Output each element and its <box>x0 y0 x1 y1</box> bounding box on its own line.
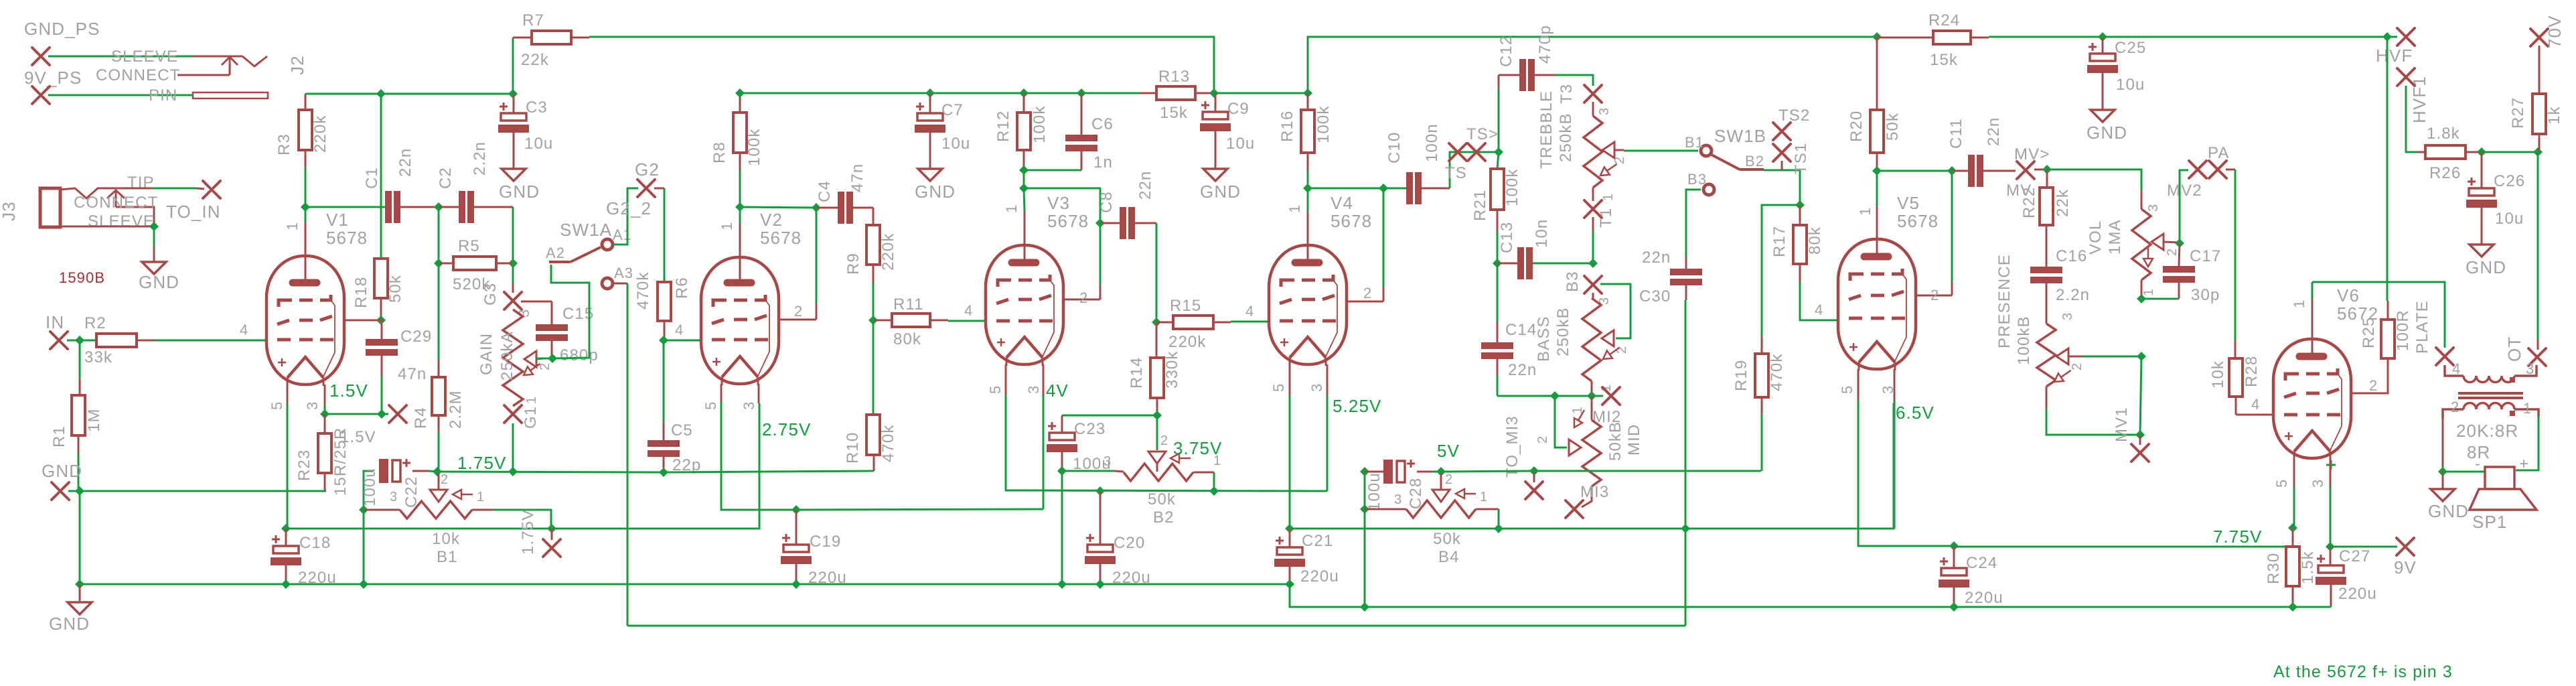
lead treble wiper <box>1614 149 1624 151</box>
lead C16 bottom <box>2046 281 2048 324</box>
wire V3 pin3 <box>1043 395 1045 509</box>
svg-text:MV2: MV2 <box>2167 182 2202 200</box>
junction B1 wiper <box>433 467 442 476</box>
svg-text:C18: C18 <box>299 534 331 552</box>
lead R3 bottom <box>305 150 307 167</box>
potentiometer B2 50k <box>1124 464 1193 481</box>
lead C11 right <box>1983 170 2016 172</box>
resistor R2 <box>96 334 137 347</box>
junction C24 top <box>1949 541 1959 551</box>
svg-text:3: 3 <box>741 401 757 410</box>
svg-text:R20: R20 <box>1847 111 1866 142</box>
svg-text:+: + <box>2519 455 2529 473</box>
lead R4 bottom <box>438 415 440 432</box>
wire sec left <box>2442 466 2444 472</box>
svg-text:TO_IN: TO_IN <box>166 202 221 222</box>
svg-text:250kA: 250kA <box>498 331 516 381</box>
svg-text:1: 1 <box>1601 193 1616 201</box>
lead C19 top <box>795 510 798 545</box>
svg-text:R8: R8 <box>710 141 729 163</box>
svg-text:R30: R30 <box>2265 553 2283 584</box>
svg-text:R6: R6 <box>673 277 691 299</box>
lead B1 left <box>364 509 400 511</box>
wiper treble <box>1602 142 1614 158</box>
capacitor C19 <box>781 534 812 564</box>
svg-text:2: 2 <box>794 303 803 320</box>
svg-text:47n: 47n <box>398 365 427 383</box>
lead R13 left <box>1140 92 1156 94</box>
lead R25 top <box>2387 301 2389 320</box>
svg-text:TS2: TS2 <box>1778 107 1810 125</box>
net flag G2 <box>637 180 655 197</box>
resistor R15 <box>1173 316 1213 329</box>
junction R30 gnd <box>2288 602 2297 612</box>
resistor R11 <box>892 314 930 327</box>
junction MV1 node <box>2135 430 2145 439</box>
svg-text:1: 1 <box>1286 204 1303 213</box>
lead C10 right <box>1421 188 1450 190</box>
svg-text:1n: 1n <box>1093 153 1113 171</box>
svg-text:G2_2: G2_2 <box>606 198 652 218</box>
svg-text:1: 1 <box>2141 288 2156 296</box>
lead C28 right <box>1417 471 1433 473</box>
net flag IN <box>50 332 68 349</box>
lead treble top <box>1592 102 1594 116</box>
junction B4 riser <box>1494 524 1503 533</box>
svg-text:T3: T3 <box>1558 84 1576 104</box>
wire rail3 switch A3 line <box>627 625 1685 627</box>
lead R21 bottom <box>1497 210 1499 231</box>
svg-text:G1: G1 <box>522 406 540 429</box>
wire V2 riser <box>816 208 818 303</box>
svg-text:4: 4 <box>675 322 684 338</box>
resistor R16 <box>1301 110 1314 153</box>
wire plate node V3 <box>1023 170 1025 188</box>
wire B2 wiper <box>1156 415 1158 450</box>
pin V1 plate lead <box>305 221 307 256</box>
pin V2 grid2 h <box>779 319 816 321</box>
pin V5 plate lead <box>1876 206 1878 239</box>
svg-text:1: 1 <box>718 222 735 230</box>
lead mid bottom <box>1582 486 1592 507</box>
wiper bass <box>1602 330 1614 346</box>
wire ground rail <box>80 584 1290 586</box>
lead C17 bottom <box>2178 281 2180 299</box>
wire plate to C4 <box>740 207 816 208</box>
svg-text:C12: C12 <box>1497 36 1515 67</box>
lead C29 top <box>381 320 383 339</box>
wire B+ rail B <box>740 92 1156 94</box>
svg-text:220u: 220u <box>1112 569 1151 587</box>
svg-text:G3: G3 <box>481 283 500 305</box>
junction C21 gnd <box>1285 579 1294 589</box>
wiper B1 <box>430 490 447 502</box>
wire C12 to T3 <box>1556 75 1593 86</box>
ground C9 <box>1203 169 1227 181</box>
svg-text:220u: 220u <box>1300 567 1339 586</box>
lead G3 top <box>512 284 514 293</box>
net flag 9V <box>2397 538 2414 555</box>
svg-text:C11: C11 <box>1947 118 1965 149</box>
junction R15 left <box>1152 318 1161 327</box>
lead R28 top <box>2234 340 2237 358</box>
wire R19 bottom <box>1761 414 1763 471</box>
wire C29 bottom <box>381 375 383 414</box>
pin V4 grid2 <box>1383 287 1385 301</box>
wire B+ rail A <box>305 93 513 95</box>
wire TO_IN red stub <box>196 188 204 189</box>
junction rail right C30 <box>1681 524 1690 533</box>
svg-text:A3: A3 <box>614 265 633 281</box>
lead R11 right <box>930 320 948 322</box>
svg-text:R18: R18 <box>352 277 370 308</box>
lead R28 bottom <box>2235 397 2237 415</box>
svg-text:220u: 220u <box>2338 585 2377 603</box>
lead C11 left <box>1952 170 1968 172</box>
pin V2 leg3 <box>758 384 760 403</box>
wire V5 riser <box>1951 171 1953 282</box>
svg-text:GND: GND <box>1200 182 1241 202</box>
wire C28 drop <box>1364 472 1366 607</box>
wire gnd node to R23 <box>68 490 326 492</box>
capacitor C5 <box>648 440 680 457</box>
arrow vol <box>2143 247 2153 267</box>
lead GAIN wiper <box>536 358 544 359</box>
net flag MI2 <box>1602 387 1620 405</box>
wire to HVF flag <box>2387 36 2397 38</box>
ground J3 <box>142 262 166 274</box>
wire C30 riser <box>1685 300 1687 626</box>
arrow B4 <box>1456 489 1476 498</box>
net flag MI3 <box>1566 500 1583 518</box>
svg-text:V5: V5 <box>1897 193 1920 213</box>
lead R2 right <box>137 340 155 342</box>
svg-text:1MA: 1MA <box>2106 219 2124 255</box>
switch SW1A arm <box>549 247 601 262</box>
pin V1 grid2 wire <box>344 320 381 322</box>
wire C25 to HVF <box>2103 36 2387 38</box>
svg-text:5678: 5678 <box>1331 211 1372 231</box>
lead C14 bottom <box>1497 357 1499 375</box>
svg-text:2: 2 <box>2165 248 2180 256</box>
wire rail B up <box>1214 37 1877 93</box>
lead C5 bottom <box>663 455 665 472</box>
svg-text:TS: TS <box>1445 164 1467 182</box>
net flag GND in <box>52 482 69 500</box>
svg-text:10u: 10u <box>2116 76 2145 94</box>
svg-text:1: 1 <box>2291 299 2307 308</box>
wire B3 pin to C30 <box>1686 190 1701 257</box>
svg-text:R26: R26 <box>2429 164 2461 182</box>
tube V4 5678 <box>1269 245 1347 366</box>
lead R17 top2 <box>1799 205 1801 225</box>
svg-text:5.25V: 5.25V <box>1333 396 1381 416</box>
wire R6 top <box>664 188 666 282</box>
wire A3 down <box>627 283 629 626</box>
svg-text:1: 1 <box>1857 207 1874 216</box>
wire A1 up <box>613 188 638 245</box>
svg-text:R16: R16 <box>1278 111 1296 142</box>
potentiometer MID 50kB <box>1582 420 1601 486</box>
svg-text:1.75V: 1.75V <box>457 453 506 473</box>
lead R20 bottom <box>1876 153 1878 171</box>
svg-text:50k: 50k <box>386 275 404 303</box>
lead R27 top <box>2539 46 2541 94</box>
svg-text:330k: 330k <box>1163 351 1181 389</box>
wire C14 top <box>1497 263 1499 322</box>
lead C29 bottom <box>381 354 383 375</box>
svg-text:C29: C29 <box>400 328 432 346</box>
pin V4 grid2 h <box>1347 301 1383 303</box>
junction C25 top <box>2098 32 2107 42</box>
svg-text:C23: C23 <box>1074 420 1106 438</box>
switch SW1A contact A1 <box>602 239 613 250</box>
pin V3 plate lead <box>1024 212 1026 245</box>
svg-text:100kB: 100kB <box>2015 316 2033 365</box>
wire plate to C10 <box>1308 188 1383 190</box>
svg-text:22k: 22k <box>521 51 549 69</box>
net flag TS2 <box>1773 123 1791 140</box>
svg-text:10u: 10u <box>524 135 553 153</box>
pin V1 leg5 <box>287 385 289 403</box>
lead TS1 stub <box>1781 161 1783 170</box>
ground speaker <box>2431 489 2455 501</box>
svg-text:SW1B: SW1B <box>1714 126 1766 146</box>
lead R24 left <box>1877 37 1933 39</box>
svg-text:GAIN: GAIN <box>477 333 496 375</box>
wiper GAIN <box>524 351 536 367</box>
junction B2 riser <box>1209 486 1219 496</box>
switch SW1A contact A3 <box>602 278 613 289</box>
svg-text:R2: R2 <box>84 314 106 332</box>
junction C6 top <box>1077 88 1086 98</box>
wiper B2 <box>1148 452 1166 464</box>
net flag OT <box>2528 348 2546 366</box>
capacitor C14 <box>1481 342 1513 359</box>
svg-text:4: 4 <box>240 322 248 338</box>
lead R9 top <box>873 208 875 225</box>
svg-text:GND: GND <box>499 182 540 202</box>
lead C27 bottom <box>2330 585 2332 607</box>
svg-text:R1: R1 <box>50 425 68 448</box>
svg-text:10u: 10u <box>1226 135 1255 153</box>
potentiometer B4 50k <box>1406 500 1476 518</box>
wire A2 bypass <box>551 265 589 358</box>
wire B1 right riser <box>492 510 551 529</box>
tube V6 5672 <box>2273 339 2351 460</box>
svg-text:OT: OT <box>2504 336 2524 362</box>
wire plate to C8 <box>1024 188 1100 223</box>
wire R17 to V5 pin4 <box>1800 281 1838 320</box>
lead presence wiper <box>2068 356 2082 358</box>
svg-text:3: 3 <box>1104 454 1112 469</box>
lead C23 top <box>1061 415 1063 433</box>
svg-text:R7: R7 <box>522 11 544 29</box>
svg-text:C25: C25 <box>2115 39 2146 57</box>
lead TO_MI3 stub <box>1533 471 1535 482</box>
junction C19 gnd <box>791 579 801 589</box>
svg-text:22n: 22n <box>1642 249 1671 267</box>
svg-text:TO_MI3: TO_MI3 <box>1503 415 1521 478</box>
ground C7 <box>918 169 942 181</box>
svg-text:100k: 100k <box>1314 106 1333 143</box>
svg-text:5: 5 <box>1270 383 1287 392</box>
resistor R27 <box>2532 94 2546 134</box>
wire vol chain <box>2140 356 2141 435</box>
svg-text:At the 5672 f+ is pin 3: At the 5672 f+ is pin 3 <box>2273 663 2453 681</box>
pin V2 grid2 <box>816 303 818 320</box>
wire V4 riser <box>1383 188 1385 287</box>
svg-text:9V_PS: 9V_PS <box>24 68 82 88</box>
lead VOL wiper <box>2164 242 2180 243</box>
resistor R6 <box>658 282 671 321</box>
wire C1C2 down <box>438 207 440 263</box>
wire V4 pin3 <box>1327 395 1329 491</box>
wire plate rail V1 <box>305 94 307 207</box>
junction TS node <box>1494 147 1503 157</box>
svg-text:VOL: VOL <box>2087 220 2105 255</box>
svg-text:MV>: MV> <box>2014 145 2050 163</box>
capacitor C2 <box>459 191 474 223</box>
svg-text:R23: R23 <box>295 450 313 481</box>
lead C5 top <box>663 422 665 440</box>
svg-text:R14: R14 <box>1128 357 1146 389</box>
switch SW1B arm <box>1712 155 1764 169</box>
resistor R17 <box>1793 225 1807 264</box>
junction R3 bottom <box>301 202 310 212</box>
junction V3 riser <box>1095 218 1105 228</box>
svg-text:HVF: HVF <box>2376 46 2413 66</box>
svg-text:R24: R24 <box>1928 11 1960 29</box>
net flag T1 <box>1584 200 1602 218</box>
svg-text:B2: B2 <box>1153 508 1175 527</box>
transformer OT core <box>2458 393 2523 398</box>
svg-text:C30: C30 <box>1639 287 1671 305</box>
svg-text:100u: 100u <box>361 468 379 506</box>
lead C3 top <box>513 94 515 113</box>
wire R1 top <box>79 340 81 379</box>
junction C18 top <box>281 524 291 533</box>
connector J2 pin contact <box>193 92 268 98</box>
junction B4 wiper <box>1436 467 1446 476</box>
lead R19 top <box>1761 336 1763 354</box>
lead R14 bottom <box>1156 398 1158 415</box>
wire V1 pin1 up <box>305 207 307 222</box>
svg-text:R9: R9 <box>844 253 862 275</box>
lead R13 right <box>1195 92 1214 94</box>
wire R2 to V1 pin4 <box>155 340 267 342</box>
net flag HVF <box>2397 28 2415 46</box>
svg-text:C14: C14 <box>1505 321 1537 339</box>
svg-text:GND: GND <box>49 614 90 634</box>
lead R30 bottom <box>2292 586 2294 607</box>
lead R18 bottom <box>380 298 382 320</box>
potentiometer PRESENCE 100kB <box>2037 324 2056 387</box>
capacitor C11 <box>1968 155 1983 187</box>
tube V3 5678 <box>986 245 1063 366</box>
lead OT sec left <box>2442 419 2444 466</box>
svg-text:R13: R13 <box>1158 68 1190 86</box>
junction C14 bottom <box>1550 391 1560 401</box>
junction C20 gnd <box>1095 579 1105 589</box>
svg-text:9V: 9V <box>2394 557 2417 577</box>
svg-text:5678: 5678 <box>1897 211 1939 231</box>
svg-text:3: 3 <box>1025 385 1042 394</box>
svg-text:2.75V: 2.75V <box>762 419 811 439</box>
svg-text:15k: 15k <box>1930 51 1958 69</box>
svg-text:C7: C7 <box>941 101 964 119</box>
net flag MV in <box>2017 161 2034 179</box>
svg-text:1590B: 1590B <box>59 269 105 286</box>
lead OT flag stub <box>2537 339 2539 350</box>
capacitor C1 <box>385 191 400 223</box>
svg-text:G2: G2 <box>635 159 660 180</box>
svg-text:4V: 4V <box>1046 381 1069 401</box>
svg-text:R11: R11 <box>893 295 924 314</box>
svg-text:470p: 470p <box>1536 25 1554 64</box>
svg-text:GND: GND <box>2087 123 2127 143</box>
lead C18 top <box>285 529 287 546</box>
svg-text:5: 5 <box>702 401 719 410</box>
wire V1 pin3 <box>324 405 326 414</box>
wire bias 175 rail <box>437 472 664 472</box>
svg-text:3: 3 <box>1394 492 1402 507</box>
wire VOL wiper up <box>2180 170 2188 243</box>
lead C12 right <box>1534 74 1556 76</box>
svg-text:80k: 80k <box>893 330 921 348</box>
lead C23 bottom <box>1061 452 1063 471</box>
lead R1 bottom <box>78 435 80 453</box>
capacitor C10 <box>1406 172 1422 204</box>
lead B4 wiper <box>1440 473 1442 490</box>
wire plate to C11 <box>1877 170 1952 172</box>
lead C24 bottom <box>1953 588 1955 607</box>
pin V5 grid2 h <box>1916 295 1952 297</box>
wire C14 bottom <box>1497 375 1499 396</box>
capacitor C20 <box>1085 534 1116 564</box>
wire R14 to C23 <box>1062 415 1157 417</box>
svg-text:50kB: 50kB <box>1606 421 1624 461</box>
svg-text:R15: R15 <box>1170 297 1201 315</box>
wire R8 to plate <box>739 171 741 207</box>
lead C4 right <box>852 207 873 209</box>
lead C4 left <box>816 207 838 209</box>
wire C2 to G3 <box>512 207 514 263</box>
svg-text:2: 2 <box>1930 287 1939 303</box>
svg-text:V1: V1 <box>326 210 349 230</box>
junction MV node <box>2042 165 2052 174</box>
svg-text:4: 4 <box>1815 301 1823 318</box>
resistor R25 <box>2381 320 2395 358</box>
pin V6 plate lead <box>2312 297 2314 339</box>
lead R16 bottom <box>1307 153 1309 171</box>
wiper mid <box>1569 439 1581 456</box>
svg-text:5678: 5678 <box>326 228 368 248</box>
wire B2 left <box>1062 470 1114 472</box>
junction rail A R18 <box>376 89 386 98</box>
junction C20 top <box>1095 486 1105 496</box>
svg-text:C13: C13 <box>1498 222 1516 253</box>
capacitor C18 <box>271 535 301 565</box>
svg-text:33k: 33k <box>84 348 112 366</box>
svg-text:2: 2 <box>1160 433 1168 448</box>
wire TS to R21 <box>1497 152 1499 169</box>
lead R26 left <box>2417 151 2425 153</box>
pin V4 plate lead <box>1307 212 1309 245</box>
wire presence bottom <box>2046 409 2140 435</box>
svg-text:J2: J2 <box>287 55 307 75</box>
svg-text:100k: 100k <box>1031 106 1049 143</box>
